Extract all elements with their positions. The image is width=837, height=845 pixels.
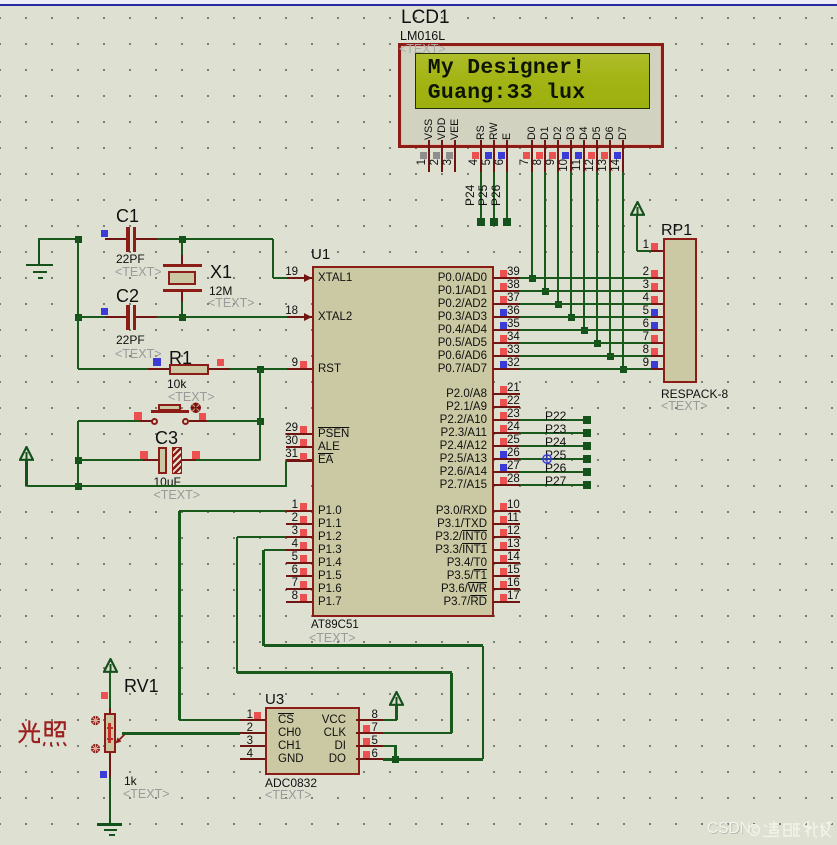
U3 pin 2 CH0 xyxy=(240,732,265,735)
U1 pin 4 P1.3 xyxy=(286,549,312,552)
RV1 wiper arrow xyxy=(113,732,127,746)
terminal xyxy=(583,455,591,463)
wire P0.7 to RP1 pin 9 xyxy=(520,368,651,371)
X1 text placeholder xyxy=(208,297,255,311)
LCD pin 8 D1 xyxy=(540,126,552,140)
U1 pin 1 P1.0 xyxy=(286,510,312,513)
U1 pin 15 P3.5/T1 xyxy=(493,575,520,578)
node P22 label xyxy=(545,410,566,423)
wire LCD D0 to P0.0 bus row xyxy=(531,172,534,278)
terminal xyxy=(583,442,591,450)
RP1 pin 2 xyxy=(651,277,664,280)
terminal xyxy=(503,218,511,226)
U1 pin 23 P2.2/A10 xyxy=(493,419,520,422)
wire C1 junction down to C2 xyxy=(77,239,80,317)
LCD pin 3 VEE xyxy=(450,119,462,140)
wire LCD D7 to P0.7 bus row xyxy=(622,172,625,369)
RP1 pin 3 xyxy=(651,290,664,293)
U1 pin 21 P2.0/A8 xyxy=(493,393,520,396)
wire P1.3 to U3 DO/DI xyxy=(264,549,287,552)
node P24 label xyxy=(545,436,566,449)
node P25 label xyxy=(545,449,566,462)
power terminal VCC (RP1) xyxy=(630,201,645,217)
wire RP1 pin1 to VCC xyxy=(637,250,651,253)
junction xyxy=(581,327,588,334)
op-amp U1 body (AT89C51) xyxy=(312,266,494,617)
RP1 pin 6 xyxy=(651,329,664,332)
wire P1.0 to U3 CS xyxy=(179,510,286,513)
U1 pin 2 P1.1 xyxy=(286,523,312,526)
U1 pin 28 P2.7/A15 xyxy=(493,484,520,487)
terminal xyxy=(583,481,591,489)
C1 text placeholder xyxy=(115,266,162,280)
U1 pin 31 EA xyxy=(286,459,312,462)
U1 pin 24 P2.3/A11 xyxy=(493,432,520,435)
terminal xyxy=(583,416,591,424)
watermark CSDN xyxy=(707,821,751,838)
top sheet edge band xyxy=(0,0,837,4)
U1 pin 27 P2.6/A14 xyxy=(493,471,520,474)
wire P1.2 to U3 CLK xyxy=(237,536,286,539)
C3 text placeholder xyxy=(154,489,201,503)
RP1 label xyxy=(661,222,692,239)
wire U3 VCC to power xyxy=(383,719,397,722)
crystal X1 xyxy=(181,240,184,256)
wire C1 to XTAL1 xyxy=(157,238,274,241)
wire P2.3 to node P23 xyxy=(520,432,588,435)
wire C3 to button-RST vertical xyxy=(196,459,260,462)
junction xyxy=(75,483,82,490)
LCD pin 6 E xyxy=(502,133,514,140)
LCD1 label xyxy=(401,8,450,29)
RP1 pin 9 xyxy=(651,368,664,371)
U1 pin 3 P1.2 xyxy=(286,536,312,539)
LCD LCD1 xyxy=(398,43,664,148)
U1 pin 13 P3.3/INT1 xyxy=(493,549,520,552)
LCD pin 10 D3 xyxy=(566,126,578,140)
wire RV1 wiper to U3 CH0 xyxy=(122,732,240,735)
wire P0.6 to RP1 pin 8 xyxy=(520,355,651,358)
terminal xyxy=(583,429,591,437)
LCD text placeholder xyxy=(399,43,446,57)
node P26 label xyxy=(545,462,566,475)
U1 pin 9 RST xyxy=(286,368,312,371)
AT89C51 label xyxy=(311,619,359,631)
capacitor C1 xyxy=(116,207,139,226)
U3 pin 3 CH1 xyxy=(240,745,265,748)
wire P2.7 to node P27 xyxy=(520,484,588,487)
U1 pin 36 P0.3/AD3 xyxy=(493,316,520,319)
U1 pin 39 P0.0/AD0 xyxy=(493,277,520,280)
U1 pin 35 P0.4/AD4 xyxy=(493,329,520,332)
terminal xyxy=(583,468,591,476)
wire LCD D2 to P0.2 bus row xyxy=(557,172,560,304)
annotation 光照 (red) xyxy=(18,719,68,747)
U1 pin 19 XTAL1 xyxy=(286,277,312,280)
junction xyxy=(179,314,186,321)
LCD pin 9 D2 xyxy=(553,126,565,140)
RP1 pin 8 xyxy=(651,355,664,358)
wire ground to C1 xyxy=(38,238,78,241)
terminal xyxy=(477,218,485,226)
R1 value 10k xyxy=(167,378,186,391)
node P24 xyxy=(464,185,477,206)
U3 label xyxy=(265,692,284,708)
potentiometer RV1 xyxy=(109,708,112,714)
wire LCD D3 to P0.3 bus row xyxy=(570,172,573,317)
wire LCD D5 to P0.5 bus row xyxy=(596,172,599,343)
wire RV1 bottom to ground xyxy=(109,753,112,778)
LCD pin 12 D5 xyxy=(592,126,604,140)
U1 pin 18 XTAL2 xyxy=(286,316,312,319)
U1 pin 34 P0.5/AD5 xyxy=(493,342,520,345)
terminal xyxy=(490,218,498,226)
R1 text placeholder xyxy=(168,391,215,405)
wire LCD pin 5 to terminal P25 xyxy=(493,172,496,221)
wire C2 junction down to R1 xyxy=(77,317,80,369)
U1 pin 26 P2.5/A13 xyxy=(493,458,520,461)
wire LCD D6 to P0.6 bus row xyxy=(609,172,612,356)
RV1 adjust buttons xyxy=(90,715,102,727)
power terminal VCC (U3) xyxy=(389,691,404,707)
wire LCD pin 6 to terminal P26 xyxy=(506,172,509,221)
wire P0.4 to RP1 pin 6 xyxy=(520,329,651,332)
wire P2.2 to node P22 xyxy=(520,419,588,422)
U1 pin 7 P1.6 xyxy=(286,588,312,591)
U1 pin 22 P2.1/A9 xyxy=(493,406,520,409)
junction xyxy=(620,366,627,373)
U1 pin 38 P0.1/AD1 xyxy=(493,290,520,293)
LCD pin 2 VDD xyxy=(437,118,449,140)
wire P2.4 to node P24 xyxy=(520,445,588,448)
RP1 text placeholder xyxy=(661,400,708,414)
RP1 pin 7 xyxy=(651,342,664,345)
wire P0.2 to RP1 pin 4 xyxy=(520,303,651,306)
U1 pin 30 ALE xyxy=(286,446,312,449)
LCD pin 5 RW xyxy=(489,123,501,140)
wire P0.3 to RP1 pin 5 xyxy=(520,316,651,319)
U1 pin 5 P1.4 xyxy=(286,562,312,565)
U1 pin 11 P3.1/TXD xyxy=(493,523,520,526)
junction xyxy=(529,275,536,282)
resistor pack RP1 (RESPACK-8) xyxy=(663,238,697,383)
power terminal xyxy=(19,446,34,462)
U1 pin 16 P3.6/WR xyxy=(493,588,520,591)
wire LCD D1 to P0.1 bus row xyxy=(544,172,547,291)
U1 text placeholder xyxy=(309,632,356,646)
wire P2.6 to node P26 xyxy=(520,471,588,474)
X1 label xyxy=(210,263,232,282)
junction xyxy=(607,353,614,360)
RV1 text placeholder xyxy=(123,788,170,802)
LCD pin 7 D0 xyxy=(527,126,539,140)
RV1 label xyxy=(124,677,159,696)
wire power row to EA xyxy=(27,485,288,488)
junction xyxy=(257,366,264,373)
U3 pin 6 DO xyxy=(356,758,384,761)
capacitor C2 xyxy=(116,287,139,306)
ADC U3 (ADC0832) xyxy=(265,707,360,775)
U3 pin 4 GND xyxy=(240,758,265,761)
junction xyxy=(594,340,601,347)
RP1 pin 5 xyxy=(651,316,664,319)
wire button row down to C3 xyxy=(77,421,80,486)
LCD pin 14 D7 xyxy=(618,126,630,140)
wire P0.0 to RP1 pin 2 xyxy=(520,277,651,280)
junction xyxy=(568,314,575,321)
power terminal xyxy=(103,658,118,674)
wire C2 to XTAL2 xyxy=(157,316,288,319)
resistor R1 xyxy=(169,349,192,368)
node marker (blue circle) xyxy=(541,453,553,465)
junction xyxy=(555,301,562,308)
C2 text placeholder xyxy=(115,348,162,362)
C1 value 22PF xyxy=(116,253,145,266)
wire LCD pin 4 to terminal P24 xyxy=(480,172,483,221)
LCD pin 11 D4 xyxy=(579,126,591,140)
junction xyxy=(542,288,549,295)
RV1 value 1k xyxy=(124,775,137,788)
capacitor C3 (10uF) xyxy=(155,429,178,448)
node P27 label xyxy=(545,475,566,488)
U1 pin 6 P1.5 xyxy=(286,575,312,578)
U1 pin 10 P3.0/RXD xyxy=(493,510,520,513)
U3 text placeholder xyxy=(265,789,312,803)
ground (top left) xyxy=(38,240,41,264)
U3 pin 1 CS xyxy=(240,719,265,722)
ADC0832 label xyxy=(265,777,317,790)
junction xyxy=(75,314,82,321)
C2 value 22PF xyxy=(116,334,145,347)
U1 pin 29 PSEN xyxy=(286,433,312,436)
wire P0.5 to RP1 pin 7 xyxy=(520,342,651,345)
X1 value 12M xyxy=(209,285,232,298)
LCD screen xyxy=(415,53,651,109)
U3 pin 5 DI xyxy=(356,745,384,748)
junction xyxy=(179,236,186,243)
wire LCD D4 to P0.4 bus row xyxy=(583,172,586,330)
node P26 xyxy=(490,185,503,206)
U1 label xyxy=(311,247,330,263)
junction xyxy=(75,236,82,243)
U1 pin 12 P3.2/INT0 xyxy=(493,536,520,539)
push button xyxy=(78,420,141,423)
wire button to RST net xyxy=(207,420,260,423)
LCD pin 13 D6 xyxy=(605,126,617,140)
wire DI to DO xyxy=(383,745,397,748)
C3 value 10uF xyxy=(154,476,181,489)
U3 pin 8 VCC xyxy=(356,719,384,722)
RESPACK-8 label xyxy=(661,388,728,401)
wire P0.1 to RP1 pin 3 xyxy=(520,290,651,293)
node P23 label xyxy=(545,423,566,436)
U1 pin 25 P2.4/A12 xyxy=(493,445,520,448)
RP1 pin 4 xyxy=(651,303,664,306)
wire P2.5 to node P25 xyxy=(520,458,588,461)
RP1 pin 1 xyxy=(651,250,664,253)
U1 pin 33 P0.6/AD6 xyxy=(493,355,520,358)
U1 pin 37 P0.2/AD2 xyxy=(493,303,520,306)
LCD pin 4 RS xyxy=(476,125,488,140)
U1 pin 32 P0.7/AD7 xyxy=(493,368,520,371)
junction xyxy=(75,457,82,464)
wire R1 to RST xyxy=(230,368,287,371)
LM016L label xyxy=(400,30,445,44)
U3 pin 7 CLK xyxy=(356,732,384,735)
U1 pin 14 P3.4/T0 xyxy=(493,562,520,565)
U1 pin 17 P3.7/RD xyxy=(493,601,520,604)
LCD line2: Guang:33 lux xyxy=(428,82,586,105)
node P25 xyxy=(477,185,490,206)
U1 pin 8 P1.7 xyxy=(286,601,312,604)
junction xyxy=(257,418,264,425)
wire RST junction down to button xyxy=(259,369,262,421)
wire up to EA pin xyxy=(285,461,288,488)
LCD line1: My Designer! xyxy=(428,57,586,80)
LCD pin 1 VSS xyxy=(424,119,436,140)
ground (RV1 bottom) xyxy=(97,823,122,826)
junction xyxy=(392,756,399,763)
